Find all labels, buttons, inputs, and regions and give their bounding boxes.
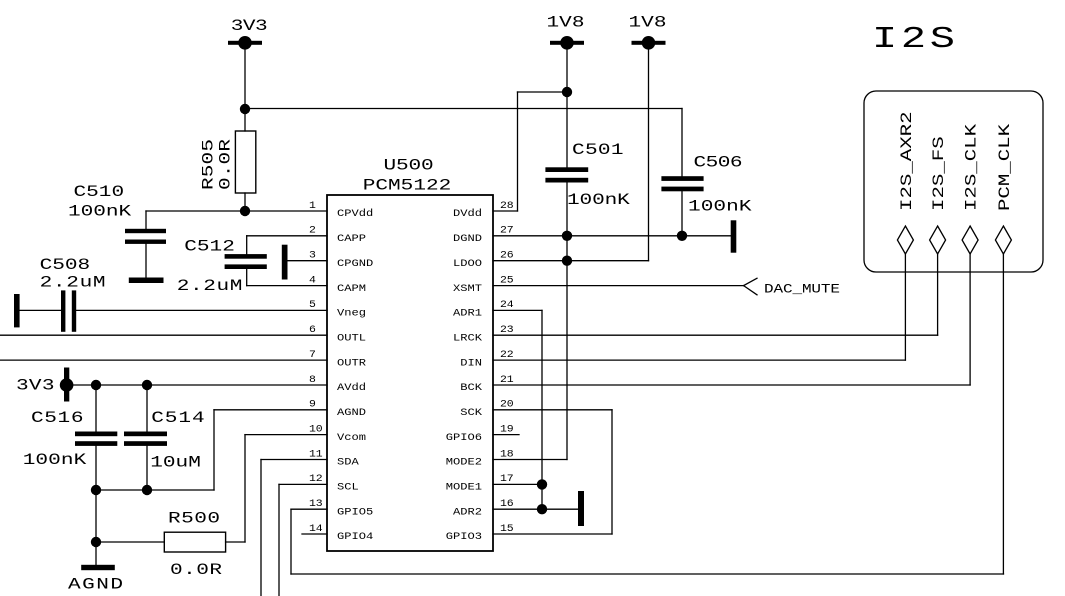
svg-text:3V3: 3V3 (231, 17, 268, 35)
svg-text:GPIO5: GPIO5 (337, 507, 374, 518)
svg-text:14: 14 (309, 523, 323, 534)
svg-text:100nK: 100nK (23, 451, 88, 469)
svg-text:16: 16 (500, 499, 514, 510)
svg-text:100nK: 100nK (567, 191, 631, 209)
svg-text:DIN: DIN (460, 358, 482, 369)
svg-text:5: 5 (309, 300, 316, 311)
svg-text:100nK: 100nK (68, 203, 132, 221)
svg-text:17: 17 (500, 474, 514, 485)
svg-text:AGND: AGND (68, 576, 123, 594)
svg-text:C510: C510 (74, 183, 125, 201)
svg-text:9: 9 (309, 399, 316, 410)
svg-text:AVdd: AVdd (337, 383, 366, 394)
svg-text:7: 7 (309, 350, 316, 361)
svg-text:22: 22 (500, 350, 514, 361)
svg-text:0.0R: 0.0R (217, 139, 235, 190)
svg-text:C514: C514 (151, 409, 205, 427)
svg-text:24: 24 (500, 300, 514, 311)
svg-text:0.0R: 0.0R (170, 561, 222, 579)
svg-text:25: 25 (500, 275, 514, 286)
svg-text:Vcom: Vcom (337, 432, 366, 443)
svg-text:SDA: SDA (337, 457, 359, 468)
svg-text:C508: C508 (40, 256, 91, 274)
svg-text:SCK: SCK (460, 408, 482, 419)
svg-text:R500: R500 (168, 510, 220, 528)
svg-text:2.2uM: 2.2uM (177, 277, 243, 295)
svg-text:6: 6 (309, 325, 316, 336)
svg-text:C506: C506 (694, 154, 743, 172)
svg-text:OUTL: OUTL (337, 333, 366, 344)
svg-text:MODE2: MODE2 (446, 457, 482, 468)
svg-text:PCM_CLK: PCM_CLK (996, 123, 1014, 211)
svg-text:OUTR: OUTR (337, 358, 366, 369)
svg-text:21: 21 (500, 374, 514, 385)
svg-text:BCK: BCK (460, 383, 482, 394)
svg-text:3: 3 (309, 250, 316, 261)
svg-text:LDOO: LDOO (453, 258, 482, 269)
svg-text:19: 19 (500, 424, 514, 435)
svg-text:15: 15 (500, 523, 514, 534)
svg-text:CAPM: CAPM (337, 283, 366, 294)
svg-text:SCL: SCL (337, 482, 359, 493)
svg-text:20: 20 (500, 399, 514, 410)
svg-text:AGND: AGND (337, 408, 366, 419)
svg-text:C512: C512 (184, 238, 235, 256)
svg-text:I2S_CLK: I2S_CLK (963, 123, 981, 211)
svg-text:28: 28 (500, 200, 514, 211)
svg-text:2.2uM: 2.2uM (40, 274, 106, 292)
svg-text:MODE1: MODE1 (446, 482, 483, 493)
svg-text:11: 11 (309, 449, 323, 460)
svg-text:U500: U500 (384, 157, 434, 175)
svg-text:PCM5122: PCM5122 (363, 177, 452, 195)
svg-text:C501: C501 (572, 141, 624, 159)
svg-text:DVdd: DVdd (453, 209, 482, 220)
svg-text:DGND: DGND (453, 234, 482, 245)
svg-text:LRCK: LRCK (453, 333, 482, 344)
svg-text:CPGND: CPGND (337, 258, 374, 269)
svg-text:1V8: 1V8 (547, 14, 585, 32)
svg-text:100nK: 100nK (688, 198, 752, 216)
svg-text:CPVdd: CPVdd (337, 209, 373, 220)
svg-text:1: 1 (309, 200, 316, 211)
svg-text:13: 13 (309, 499, 323, 510)
svg-text:2: 2 (309, 225, 316, 236)
svg-text:27: 27 (500, 225, 514, 236)
svg-text:GPIO6: GPIO6 (446, 432, 483, 443)
svg-text:1V8: 1V8 (629, 14, 667, 32)
svg-text:R505: R505 (200, 139, 218, 190)
svg-text:26: 26 (500, 250, 514, 261)
svg-text:I2S_AXR2: I2S_AXR2 (898, 111, 916, 211)
svg-text:23: 23 (500, 325, 514, 336)
svg-text:4: 4 (309, 275, 316, 286)
svg-text:3V3: 3V3 (16, 377, 55, 395)
svg-text:GPIO3: GPIO3 (446, 532, 483, 543)
svg-text:ADR2: ADR2 (453, 507, 482, 518)
svg-text:12: 12 (309, 474, 323, 485)
svg-text:Vneg: Vneg (337, 308, 366, 319)
svg-text:CAPP: CAPP (337, 234, 366, 245)
svg-text:8: 8 (309, 374, 316, 385)
svg-text:I2S: I2S (872, 22, 955, 57)
svg-text:10: 10 (309, 424, 323, 435)
svg-text:18: 18 (500, 449, 514, 460)
svg-text:I2S_FS: I2S_FS (930, 136, 948, 211)
svg-text:10uM: 10uM (150, 454, 201, 472)
svg-text:GPIO4: GPIO4 (337, 532, 374, 543)
svg-text:C516: C516 (31, 409, 84, 427)
svg-text:ADR1: ADR1 (453, 308, 482, 319)
svg-text:XSMT: XSMT (453, 283, 482, 294)
svg-text:DAC_MUTE: DAC_MUTE (764, 283, 840, 297)
